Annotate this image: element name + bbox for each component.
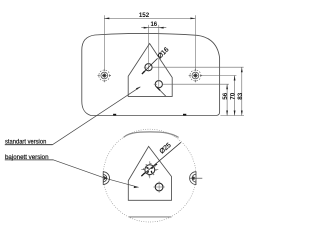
dimension 83 line (241, 67, 243, 115)
label standart underline (5, 144, 53, 146)
extension line right screw vertical (194, 15, 196, 70)
svg-text:70: 70 (230, 92, 237, 100)
dimension 16 left arrow (144, 27, 149, 29)
right screw S2 dashed circle (190, 70, 201, 81)
extension line left screw vertical (103, 15, 105, 70)
detail right screw flat edge (195, 171, 197, 185)
extension line upper hole horizontal (152, 66, 243, 68)
left screw S1 head circle (101, 72, 108, 79)
detail plate (bajonett version) (128, 146, 171, 200)
extension line lower hole vertical (158, 25, 160, 80)
leader bajonett version arrow (134, 186, 139, 188)
dimension 16 right arrow (159, 27, 164, 29)
extension line upper hole vertical (148, 25, 150, 72)
label bajonett underline (5, 159, 54, 161)
dimension 70 line (234, 76, 236, 116)
detail bottom chord (lamp bottom edge) (129, 216, 172, 218)
dimension 56 line (226, 84, 228, 115)
svg-text:standart version: standart version (5, 138, 47, 145)
right screw S2 head circle (192, 72, 199, 79)
lamp body outline (82, 33, 220, 115)
detail lower hole crosshair (153, 181, 165, 193)
diagonal mark from lower hole (157, 87, 166, 96)
dimension 70 bottom arrow (234, 111, 236, 116)
notch mark on bottom edge right (183, 114, 186, 116)
detail lower hole (155, 183, 163, 191)
notch mark on bottom edge left (113, 114, 116, 116)
left screw S1 dashed circle (99, 70, 110, 81)
dimension 56 top arrow (226, 84, 228, 89)
dimension 152 line (104, 17, 195, 19)
leader Ø25 line (141, 142, 181, 176)
bayonet hole B1 (Ø25) (145, 165, 155, 175)
dimension 83 top arrow (241, 67, 243, 72)
svg-text:152: 152 (139, 12, 150, 19)
leader bajonett version (54, 160, 139, 187)
leader &#216;25 arrow (154, 163, 158, 166)
dimension 83 bottom arrow (241, 111, 243, 116)
lower hole H2 (155, 81, 162, 88)
extension line lower hole horizontal (163, 83, 229, 85)
mounting plate (standart version) (128, 44, 172, 97)
dimension 56 bottom arrow (226, 111, 228, 116)
bayonet hole inner wedges (146, 167, 154, 174)
svg-text:56: 56 (222, 92, 229, 100)
lower hole H2 crosshair (144, 67, 159, 89)
extension line bottom horizontal (220, 115, 244, 117)
right screw S2 center ticks (189, 69, 202, 82)
dimension 16 line (141, 27, 166, 29)
extension line screw horizontal (201, 75, 237, 77)
left screw S1 phillips star (102, 73, 107, 78)
leader standart version (53, 87, 141, 145)
upper hole H1 (Ø16) (145, 64, 152, 71)
leader standart version arrow (136, 87, 140, 90)
right screw S2 phillips star (193, 73, 198, 78)
leader Ø16 line (142, 58, 157, 73)
detail right screw stub (190, 177, 203, 179)
bayonet hole serration ring (144, 164, 156, 176)
detail circle (dashed) (103, 129, 196, 222)
standart cap flat edge (102, 171, 104, 185)
detail right screw half view (190, 172, 196, 185)
bayonet hole crosshair (141, 161, 158, 178)
dimension 152 right arrow (190, 18, 195, 20)
standart connector cap (left of detail circle) (103, 172, 109, 185)
svg-text:83: 83 (237, 92, 244, 100)
svg-text:16: 16 (150, 22, 157, 28)
dimension 70 top arrow (234, 76, 236, 81)
left screw S1 center ticks (98, 69, 111, 82)
detail top chord (lamp top edge) (124, 132, 179, 138)
detail right screw phillips (192, 177, 195, 180)
leader &#216;16 arrow (143, 70, 146, 73)
dimension 152 left arrow (104, 18, 109, 20)
